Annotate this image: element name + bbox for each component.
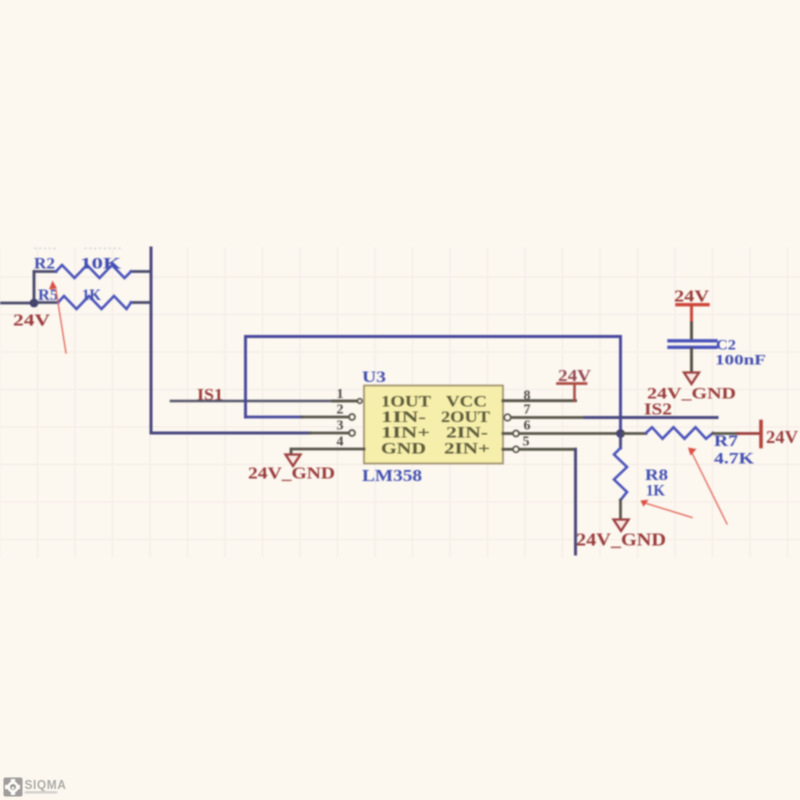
wire IS1 to pin 1: [171, 400, 356, 403]
wire: pin 5 down: [574, 449, 577, 554]
ground 24V_GND at pin 4: [248, 455, 335, 483]
faint cropped text fragments at top: [33, 245, 122, 253]
ground 24V_GND below C2: [647, 373, 736, 403]
power 24V at VCC: [558, 366, 592, 401]
pin 5 (2IN+): [503, 435, 576, 453]
op-amp U3 body: [364, 386, 503, 464]
pin 3 (1IN+): [310, 419, 355, 437]
grid (decorative): [0, 248, 800, 557]
junction node: [30, 299, 39, 308]
wire: loop to pin 2: [246, 416, 303, 419]
wire: left vertical joining R2 and R5: [33, 272, 36, 305]
ground 24V_GND at R8: [576, 520, 666, 550]
pin 8 (VCC): [503, 389, 576, 404]
junction node at R7/R8: [616, 429, 625, 438]
power port 24V (right): [761, 422, 798, 448]
wire loop: 1IN- to 2IN- over the top: [246, 337, 621, 431]
resistor R7: [621, 427, 760, 438]
resistor R5: [34, 296, 151, 309]
capacitor C2: [669, 306, 716, 373]
pin 6 (2IN-): [503, 419, 618, 437]
pin 4 (GND): [291, 435, 364, 455]
power 24V above C2: [674, 287, 710, 306]
annotation arrow (red) pointing at R7: [688, 448, 727, 525]
pin 7 (2OUT): [504, 403, 530, 421]
wire IS2 from pin 7: [512, 416, 586, 419]
annotation arrow (red) pointing at R5: [49, 281, 66, 354]
pin 2 (1IN-): [302, 403, 355, 421]
pin 1 (1OUT): [333, 387, 362, 403]
resistor R8: [614, 434, 627, 520]
annotation arrow (red) pointing at R8 value: [641, 500, 693, 518]
resistor R2: [34, 265, 151, 278]
op-amp U3 pin name rows: [381, 394, 490, 458]
wire: 24V feed horizontal left edge: [0, 302, 34, 305]
svg-text:SIQMA: SIQMA: [25, 778, 67, 792]
wire: right vertical from resistors down to pin3 row: [151, 248, 310, 433]
